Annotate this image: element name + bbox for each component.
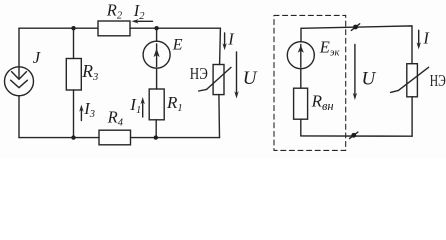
wire Rvn to bottom rail: [300, 119, 302, 136]
wire NE to bottom rail: [218, 95, 221, 138]
resistor R1: [149, 89, 164, 120]
current arrow I (left circuit): [224, 33, 226, 47]
dashed equivalent-source box: [274, 15, 346, 150]
voltage arrow U (right circuit): [354, 45, 356, 97]
wire E to R1: [156, 68, 158, 89]
wire R3 branch upper: [73, 28, 75, 58]
resistor R4: [99, 130, 131, 145]
wire bottom rail left segment: [19, 137, 99, 139]
node junction top of E branch: [154, 26, 158, 30]
wire NE to bottom rail (right circuit): [411, 97, 413, 136]
wire top rail left segment: [19, 27, 98, 29]
current arrow I1: [142, 101, 144, 118]
resistor R2: [98, 21, 130, 36]
svg-text:J: J: [33, 48, 41, 67]
svg-text:НЭ: НЭ: [430, 71, 446, 90]
terminal tick bottom: [350, 132, 358, 139]
current arrow I2: [135, 20, 153, 22]
wire left rail upper: [18, 28, 20, 67]
wire R1 to bottom rail: [155, 120, 157, 138]
voltage source E: [143, 41, 170, 68]
nonlinear element NE (left circuit): [213, 65, 224, 95]
wire E branch top: [156, 28, 158, 41]
wire top rail right segment after R2: [130, 27, 220, 29]
current source J: [5, 67, 34, 96]
node junction top of R3: [71, 26, 75, 30]
current arrow I3: [80, 108, 82, 121]
voltage source Ezh: [287, 42, 314, 69]
wire bottom rail (right circuit): [301, 135, 412, 137]
voltage arrow U (left circuit): [236, 52, 238, 95]
terminal tick top: [351, 24, 359, 31]
wire top rail (right circuit): [301, 26, 412, 64]
resistor R3: [66, 59, 81, 91]
svg-text:НЭ: НЭ: [190, 64, 208, 83]
svg-text:U: U: [243, 68, 258, 89]
wire Ezh to Rvn: [300, 69, 302, 89]
node junction bottom of R3: [71, 135, 75, 139]
resistor Rvn: [294, 88, 308, 119]
nonlinear element NE (right circuit): [407, 64, 418, 97]
svg-text:U: U: [362, 68, 377, 89]
wire right rail upper: [219, 28, 222, 64]
node junction bottom of R1: [154, 135, 158, 139]
wire bottom rail right segment: [131, 137, 220, 139]
wire left rail lower: [18, 96, 20, 138]
wire R3 branch lower: [73, 90, 75, 138]
current arrow I (right circuit): [418, 30, 420, 46]
svg-text:E: E: [172, 36, 183, 53]
